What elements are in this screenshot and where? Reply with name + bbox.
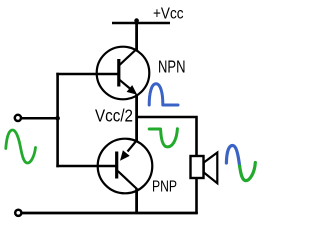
Q2 emitter stroke	[128, 141, 137, 152]
wire: vertical bus from Q2 collector to bottom rail	[135, 189, 138, 215]
Q1 base bar	[117, 59, 120, 87]
svg-text:+Vcc: +Vcc	[153, 6, 184, 23]
wire: NPN base lead	[56, 73, 117, 76]
wire: +Vcc top rail	[112, 22, 170, 25]
wire: speaker bottom to bottom rail	[195, 177, 198, 214]
Q1 emitter stroke	[120, 80, 132, 90]
terminal: input (open circle)	[15, 115, 21, 121]
speaker LS1 driver box	[191, 156, 204, 178]
svg-text:NPN: NPN	[158, 57, 186, 77]
speaker LS1 cone	[204, 153, 218, 184]
Q2 emitter arrowhead	[120, 150, 130, 161]
wire: vertical bus from Q1 emitter to Q2 emitter (Vcc/2 node)	[135, 94, 138, 141]
wire: output node to speaker loop (right, down)	[138, 117, 197, 157]
wire: PNP base lead	[56, 165, 115, 168]
Q1 collector stroke	[120, 49, 137, 65]
waveform: PNP negative half-cycle (green)	[149, 129, 177, 147]
node: input junction dot	[55, 116, 60, 121]
wire: input bus vertical	[56, 73, 59, 167]
svg-text:PNP: PNP	[152, 179, 177, 196]
Q1 emitter arrowhead	[127, 85, 138, 95]
wire: bottom rail	[22, 212, 198, 215]
waveform: NPN positive half-cycle (blue)	[149, 84, 178, 105]
terminal: bottom return (open circle)	[15, 210, 21, 216]
transistor Q2 PNP circle	[98, 139, 153, 194]
node: Vcc junction dot	[134, 18, 139, 23]
Q2 base bar	[115, 152, 118, 179]
waveform: output sine negative half (green)	[240, 163, 256, 181]
svg-text:Vcc/2: Vcc/2	[95, 106, 133, 126]
Q2 collector stroke	[118, 171, 137, 189]
waveform: input sine (green)	[6, 130, 36, 163]
waveform: output sine positive half (blue)	[226, 146, 239, 167]
wire: input lead	[21, 117, 58, 120]
wire: vertical bus from +Vcc to Q1 collector	[135, 20, 138, 51]
transistor Q1 NPN circle	[97, 47, 150, 100]
